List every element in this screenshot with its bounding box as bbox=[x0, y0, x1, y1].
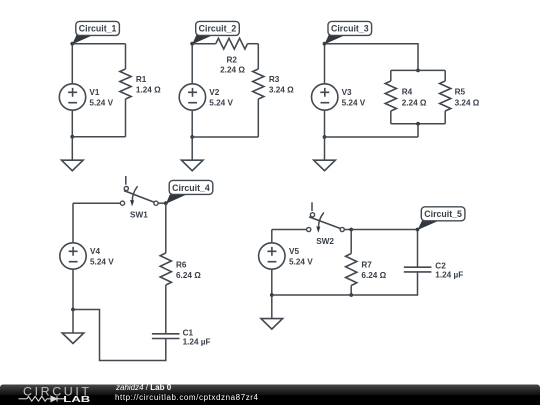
voltage source V1 bbox=[59, 84, 85, 110]
svg-text:V3: V3 bbox=[342, 88, 352, 97]
node after switch circuit 4 bbox=[164, 201, 168, 205]
wire ground stem circuit 4 bbox=[72, 310, 74, 334]
wire R5 upper stub bbox=[444, 70, 446, 81]
wire left lower circuit 1 bbox=[71, 110, 73, 137]
wire left lower circuit 2 bbox=[191, 110, 193, 137]
ground circuit 3 bbox=[314, 160, 336, 171]
svg-text:6.24 Ω: 6.24 Ω bbox=[361, 271, 386, 280]
svg-text:5.24 V: 5.24 V bbox=[289, 258, 313, 267]
svg-text:V5: V5 bbox=[289, 247, 299, 256]
wire below C1 bbox=[73, 310, 166, 361]
ground circuit 5 bbox=[261, 319, 283, 330]
wire below V5 bbox=[271, 269, 273, 295]
resistor R2 bbox=[216, 38, 248, 49]
svg-text:R2: R2 bbox=[226, 56, 237, 65]
voltage source V3 bbox=[312, 84, 338, 110]
wire R7 lower bbox=[350, 286, 352, 296]
wire C2 branch upper bbox=[417, 230, 419, 268]
wire top circuit 4 bbox=[73, 202, 121, 204]
footer bar bbox=[0, 385, 540, 405]
node top-left circuit 3 bbox=[323, 42, 327, 46]
wire left upper circuit 1 bbox=[71, 44, 73, 84]
svg-text:R3: R3 bbox=[269, 75, 280, 84]
wire ground stem circuit 3 bbox=[324, 137, 326, 160]
node bottom-left circuit 3 bbox=[323, 135, 327, 139]
svg-text:R6: R6 bbox=[176, 260, 187, 269]
svg-text:1.24 Ω: 1.24 Ω bbox=[136, 86, 161, 95]
capacitor C2 bbox=[404, 267, 432, 272]
svg-text:2.24 Ω: 2.24 Ω bbox=[402, 98, 427, 107]
svg-text:R5: R5 bbox=[455, 88, 466, 97]
wire parallel bottom stem bbox=[417, 124, 419, 137]
wire R6 to C1 bbox=[165, 285, 167, 334]
net label Circuit_5 bbox=[418, 207, 465, 230]
svg-text:V4: V4 bbox=[90, 247, 100, 256]
wire bottom circuit 1 bbox=[72, 136, 125, 138]
wire ground stem circuit 2 bbox=[191, 137, 193, 160]
wire below V4 bbox=[72, 269, 74, 309]
svg-text:5.24 V: 5.24 V bbox=[209, 98, 233, 107]
resistor R4 bbox=[385, 81, 396, 111]
switch SW2 bbox=[307, 202, 345, 233]
node bottom-left circuit 5 bbox=[270, 293, 274, 297]
voltage source V5 bbox=[259, 243, 285, 269]
node parallel top circuit 3 bbox=[416, 69, 420, 73]
svg-text:1.24 µF: 1.24 µF bbox=[435, 271, 463, 280]
svg-text:3.24 Ω: 3.24 Ω bbox=[455, 98, 480, 107]
wire R4 upper stub bbox=[390, 70, 392, 81]
wire ground stem circuit 5 bbox=[271, 295, 273, 319]
node R7 bottom circuit 5 bbox=[349, 293, 353, 297]
svg-text:Circuit_3: Circuit_3 bbox=[331, 24, 369, 34]
wire left lower circuit 3 bbox=[324, 110, 326, 137]
svg-text:6.24 Ω: 6.24 Ω bbox=[176, 271, 201, 280]
node top-right circuit 5 bbox=[416, 228, 420, 232]
wire top circuit 5 bbox=[272, 229, 307, 231]
wire right lower circuit 2 bbox=[257, 99, 259, 137]
voltage source V4 bbox=[60, 243, 86, 269]
svg-text:http://circuitlab.com/cptxdzna: http://circuitlab.com/cptxdzna87zr4 bbox=[115, 393, 259, 402]
resistor R5 bbox=[440, 81, 451, 111]
svg-text:zahidz4 / Lab 0: zahidz4 / Lab 0 bbox=[115, 383, 172, 392]
wire ground stem circuit 1 bbox=[71, 137, 73, 160]
net label Circuit_1 bbox=[72, 21, 119, 44]
node top-left circuit 1 bbox=[70, 42, 74, 46]
wire right upper circuit 2 bbox=[257, 44, 259, 69]
svg-text:5.24 V: 5.24 V bbox=[342, 98, 366, 107]
wire right lower circuit 1 bbox=[125, 99, 127, 137]
wire top-right segment circuit 2 bbox=[248, 43, 259, 45]
wire below C2 bbox=[272, 272, 418, 295]
node bottom-left circuit 4 bbox=[71, 308, 75, 312]
ground circuit 2 bbox=[181, 160, 203, 171]
wire right upper circuit 1 bbox=[125, 44, 127, 69]
svg-text:Circuit_1: Circuit_1 bbox=[79, 24, 117, 34]
svg-text:LAB: LAB bbox=[63, 394, 90, 404]
svg-text:3.24 Ω: 3.24 Ω bbox=[269, 86, 294, 95]
wire parallel bottom bus bbox=[391, 123, 445, 125]
svg-text:5.24 V: 5.24 V bbox=[89, 98, 113, 107]
svg-text:Circuit_2: Circuit_2 bbox=[199, 24, 237, 34]
wire left circuit 5 bbox=[271, 230, 273, 243]
svg-text:SW1: SW1 bbox=[130, 210, 148, 219]
ground circuit 1 bbox=[62, 160, 84, 171]
net label Circuit_3 bbox=[325, 21, 372, 44]
ground circuit 4 bbox=[62, 333, 84, 344]
wire R6 branch upper bbox=[165, 203, 167, 253]
wire left upper circuit 3 bbox=[324, 44, 326, 84]
capacitor C1 bbox=[152, 334, 180, 339]
switch SW1 bbox=[120, 176, 158, 206]
node R7 top circuit 5 bbox=[349, 228, 353, 232]
svg-text:R4: R4 bbox=[402, 88, 413, 97]
svg-text:R7: R7 bbox=[361, 260, 372, 269]
svg-text:SW2: SW2 bbox=[316, 237, 334, 246]
node parallel bottom circuit 3 bbox=[416, 122, 420, 126]
svg-text:5.24 V: 5.24 V bbox=[90, 258, 114, 267]
node bottom-left circuit 1 bbox=[70, 135, 74, 139]
resistor R1 bbox=[120, 69, 131, 99]
wire left circuit 4 bbox=[72, 203, 74, 243]
svg-text:2.24 Ω: 2.24 Ω bbox=[220, 65, 245, 74]
node top-left circuit 2 bbox=[190, 42, 194, 46]
wire parallel top bus bbox=[391, 69, 445, 71]
wire R4 lower stub bbox=[390, 111, 392, 124]
voltage source V2 bbox=[179, 84, 205, 110]
resistor R7 bbox=[346, 254, 357, 286]
wire left upper circuit 2 bbox=[191, 44, 193, 84]
wire R5 lower stub bbox=[444, 111, 446, 124]
svg-text:V2: V2 bbox=[209, 88, 219, 97]
wire bottom circuit 3 bbox=[325, 136, 419, 138]
wire R7 branch upper bbox=[350, 230, 352, 254]
resistor R6 bbox=[160, 253, 171, 285]
wire top-left segment circuit 2 bbox=[192, 43, 216, 45]
net label Circuit_2 bbox=[192, 21, 239, 44]
net label Circuit_4 bbox=[166, 180, 213, 203]
svg-text:C2: C2 bbox=[435, 262, 446, 271]
wire switch to node circuit 5 bbox=[344, 229, 351, 231]
wire node to corner circuit 5 bbox=[351, 229, 417, 231]
svg-text:R1: R1 bbox=[136, 75, 147, 84]
logo resistor-diode glyph bbox=[19, 396, 66, 401]
svg-text:Circuit_4: Circuit_4 bbox=[172, 183, 210, 193]
svg-text:Circuit_5: Circuit_5 bbox=[424, 209, 462, 219]
wire top circuit 1 bbox=[72, 43, 125, 45]
wire switch to node circuit 4 bbox=[158, 202, 166, 204]
resistor R3 bbox=[253, 69, 264, 99]
node bottom-left circuit 2 bbox=[190, 135, 194, 139]
svg-text:V1: V1 bbox=[89, 88, 99, 97]
svg-text:1.24 µF: 1.24 µF bbox=[183, 337, 211, 346]
wire bottom circuit 2 bbox=[192, 136, 258, 138]
svg-text:C1: C1 bbox=[183, 328, 194, 337]
wire top circuit 3 bbox=[325, 44, 419, 71]
